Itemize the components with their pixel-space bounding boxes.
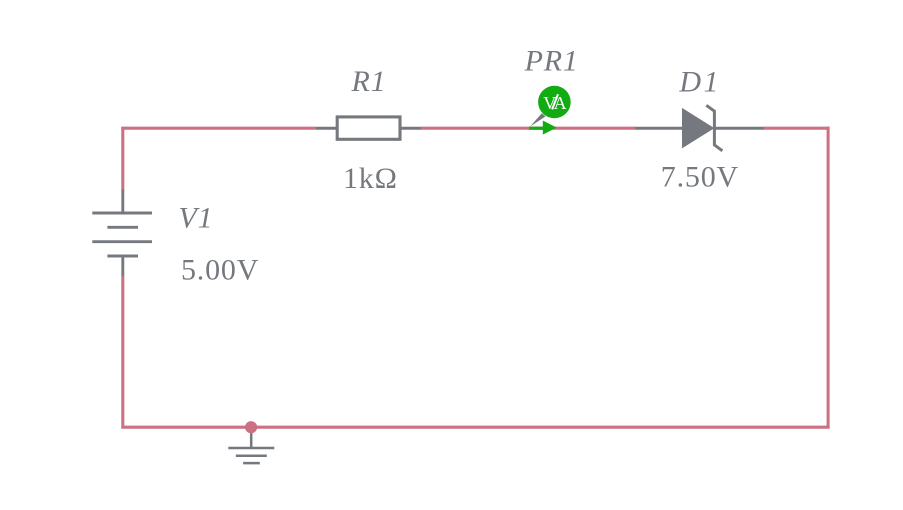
wire: right vertical [827,127,830,429]
svg-text:1kΩ: 1kΩ [343,162,398,195]
wire: bottom horizontal [121,426,829,429]
battery V1 [92,190,152,276]
svg-text:V1: V1 [179,202,214,235]
svg-text:5.00V: 5.00V [181,253,259,286]
wire: top-right segment (diode to corner) [763,127,830,130]
probe body circle [538,86,571,119]
ground [228,428,274,463]
zener diode D1 [636,105,764,151]
svg-text:7.50V: 7.50V [661,160,739,193]
probe PR1 [529,86,571,135]
probe arrow head [543,121,557,135]
probe needle [530,113,545,126]
svg-text:PR1: PR1 [524,45,579,78]
svg-text:R1: R1 [351,65,387,98]
wire: top middle segment (resistor to diode) [420,127,636,130]
svg-text:D1: D1 [678,66,721,99]
probe arrow tail [529,127,544,130]
wire: left vertical lower (battery to corner) [121,275,124,428]
junction node [245,421,257,433]
resistor R1 [316,117,421,139]
wire: top-left horizontal segment [121,127,316,130]
wire: left vertical upper (corner to battery) [121,127,124,190]
